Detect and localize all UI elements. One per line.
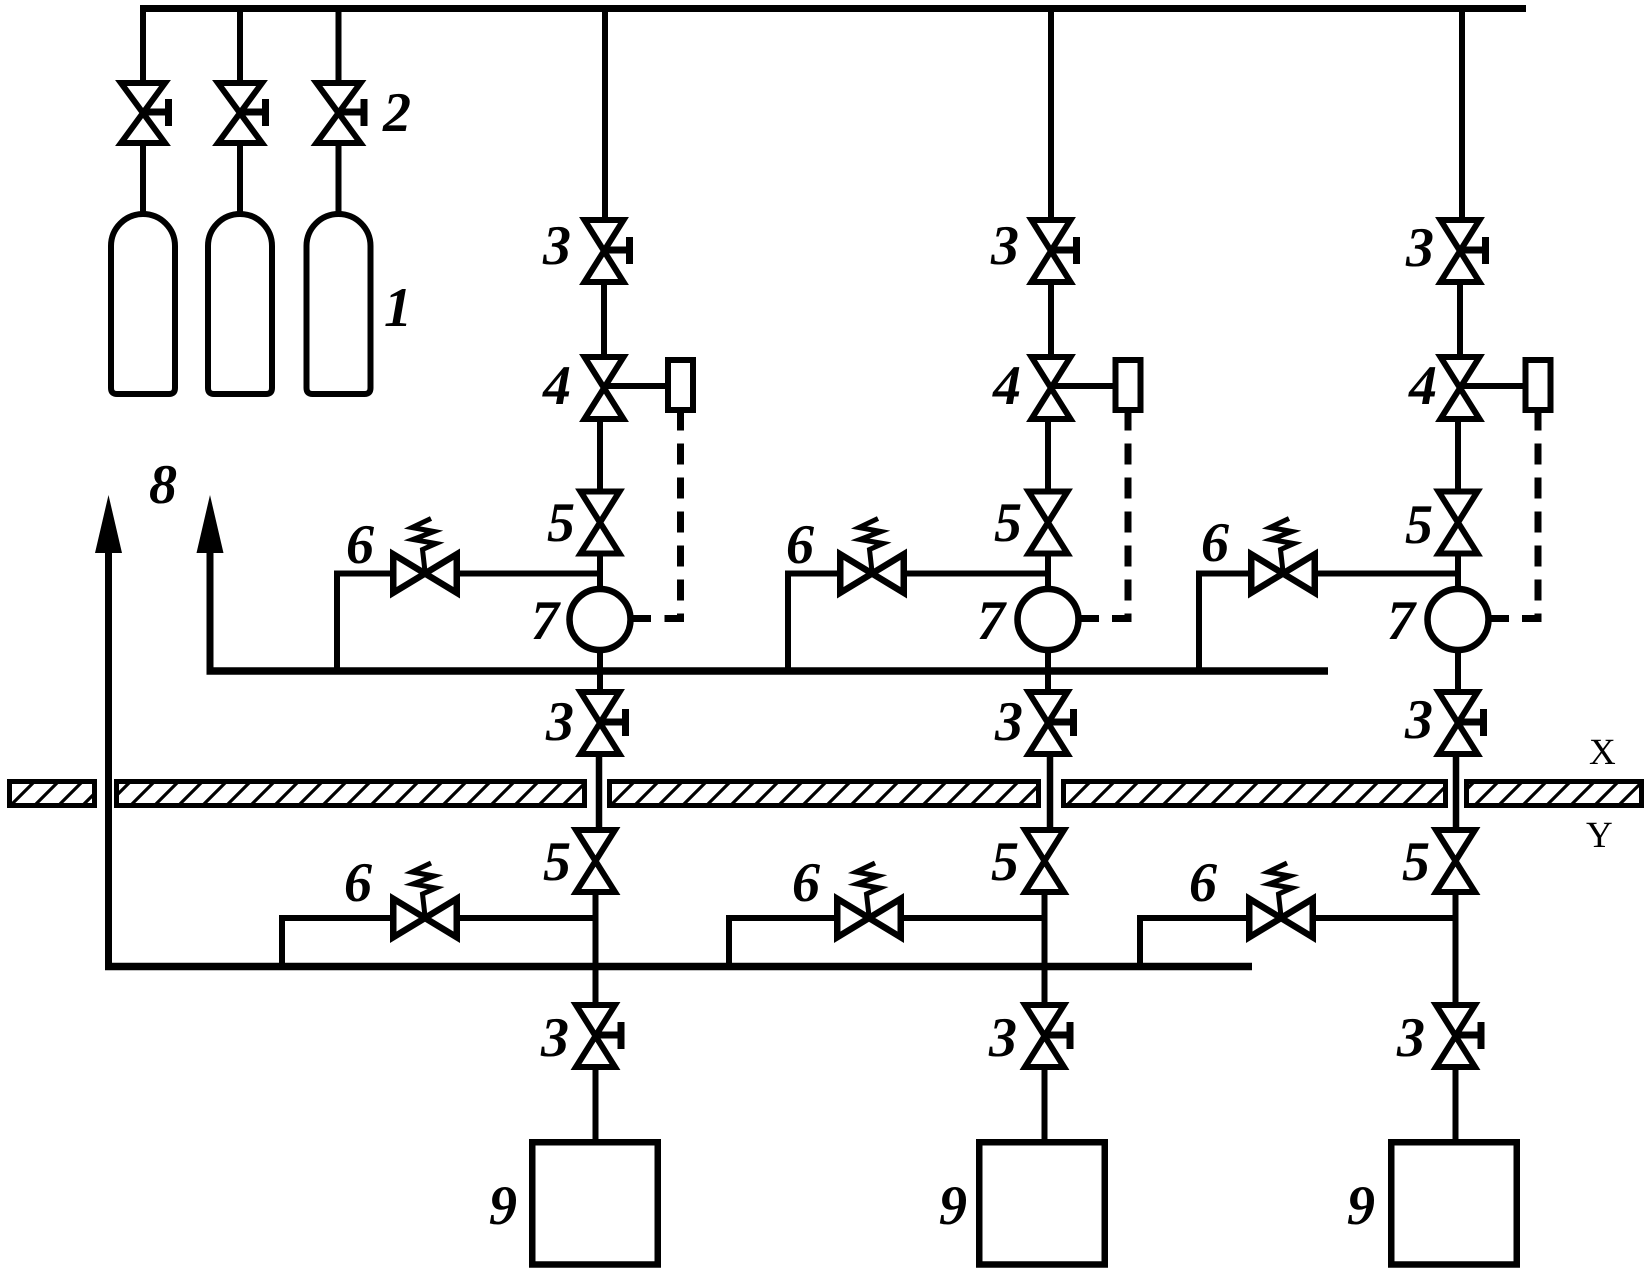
svg-text:5: 5 (547, 492, 575, 554)
svg-text:3: 3 (1404, 689, 1433, 751)
svg-text:3: 3 (540, 1007, 569, 1069)
svg-text:7: 7 (531, 590, 561, 652)
svg-text:3: 3 (542, 215, 571, 277)
svg-text:4: 4 (992, 355, 1021, 417)
svg-text:6: 6 (344, 852, 372, 914)
svg-text:5: 5 (543, 831, 571, 893)
svg-text:2: 2 (382, 82, 411, 144)
svg-text:5: 5 (1405, 494, 1433, 556)
svg-text:3: 3 (990, 215, 1019, 277)
svg-text:9: 9 (1347, 1175, 1375, 1237)
svg-text:4: 4 (542, 355, 571, 417)
svg-text:3: 3 (994, 691, 1023, 753)
svg-text:6: 6 (792, 852, 820, 914)
svg-text:1: 1 (384, 277, 412, 339)
svg-text:X: X (1589, 732, 1616, 773)
svg-text:3: 3 (545, 691, 574, 753)
svg-text:5: 5 (991, 831, 1019, 893)
svg-text:3: 3 (988, 1007, 1017, 1069)
svg-text:5: 5 (1402, 831, 1430, 893)
svg-text:3: 3 (1405, 217, 1434, 279)
svg-text:6: 6 (346, 514, 374, 576)
svg-text:9: 9 (489, 1175, 517, 1237)
svg-text:6: 6 (1189, 852, 1217, 914)
svg-text:3: 3 (1396, 1007, 1425, 1069)
svg-text:4: 4 (1408, 355, 1437, 417)
svg-text:6: 6 (786, 514, 814, 576)
svg-text:6: 6 (1201, 512, 1229, 574)
svg-text:9: 9 (939, 1175, 967, 1237)
svg-text:7: 7 (1387, 590, 1417, 652)
svg-text:Y: Y (1586, 815, 1613, 856)
svg-text:8: 8 (149, 454, 177, 516)
svg-text:7: 7 (977, 590, 1007, 652)
svg-text:5: 5 (994, 492, 1022, 554)
